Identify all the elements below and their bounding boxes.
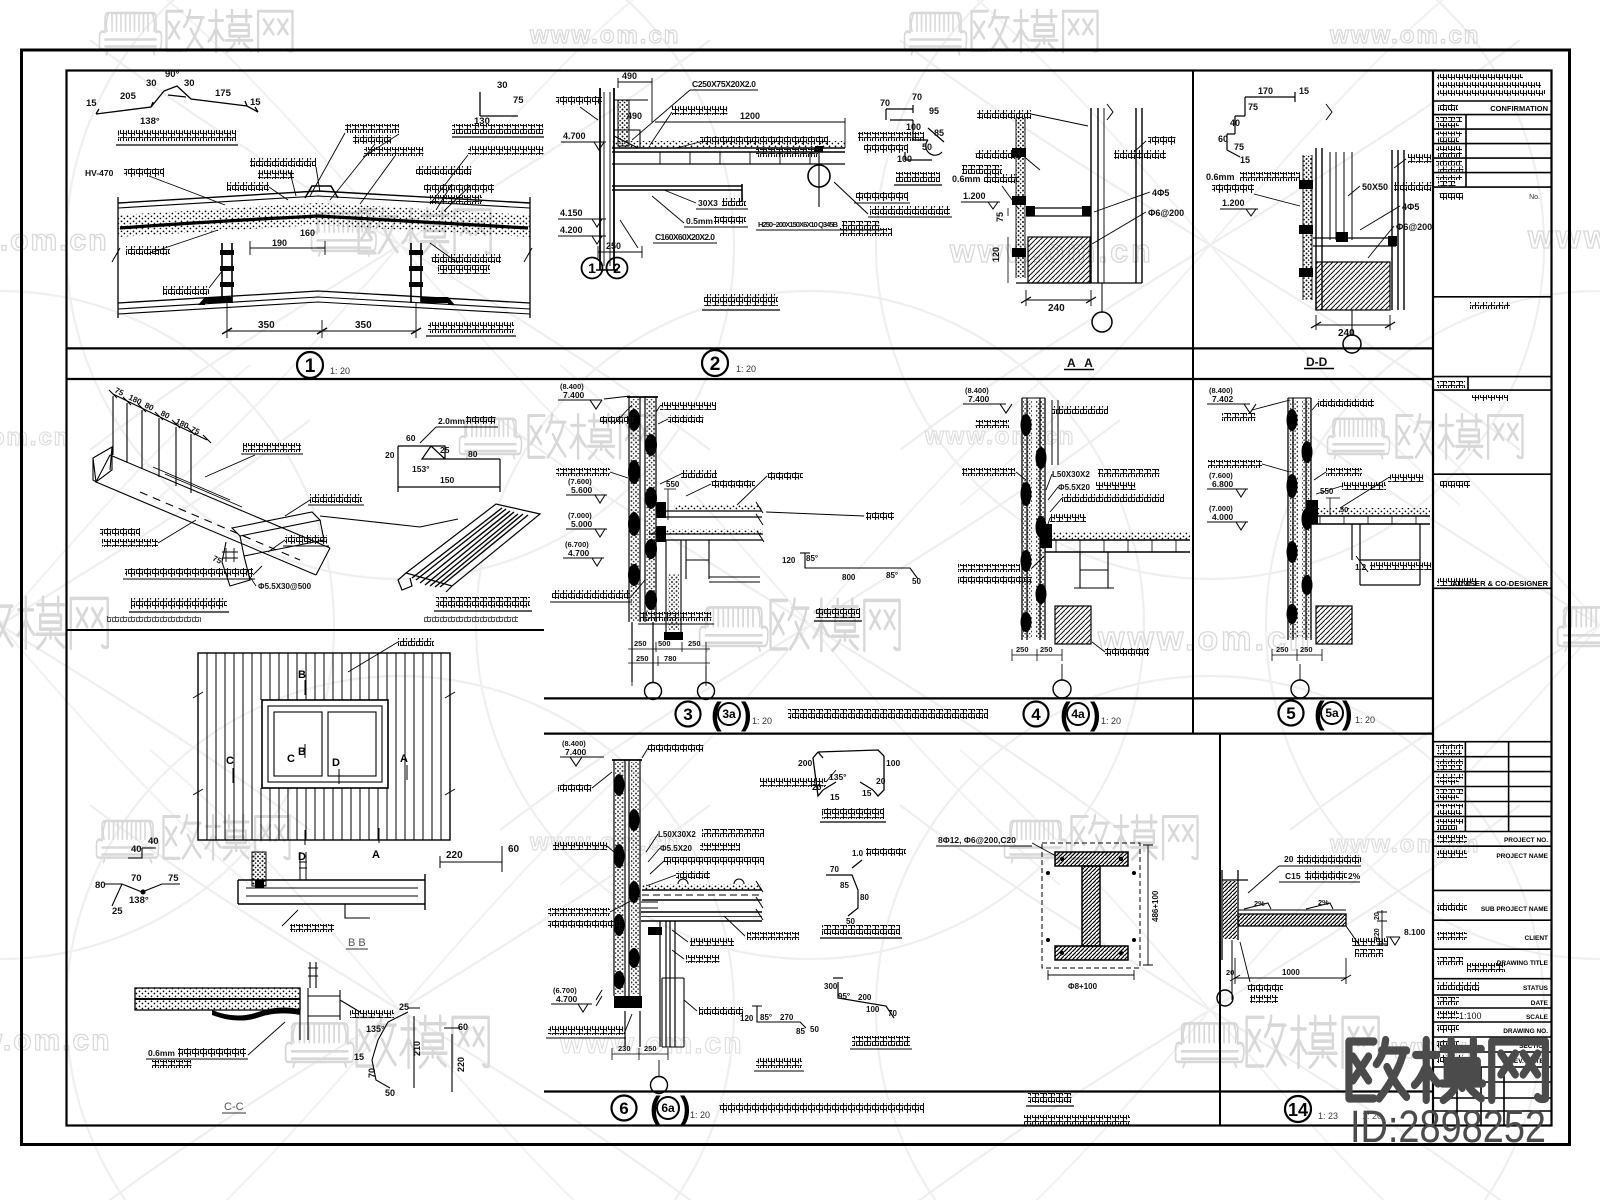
svg-text:80: 80	[860, 893, 869, 902]
svg-text:550: 550	[666, 480, 680, 489]
svg-text:B B: B B	[348, 937, 366, 949]
svg-text:4a: 4a	[1071, 707, 1085, 721]
svg-text:70: 70	[830, 865, 839, 874]
svg-text:500: 500	[658, 639, 671, 648]
svg-text:30: 30	[146, 78, 157, 89]
svg-text:30: 30	[497, 80, 508, 91]
svg-text:4.700: 4.700	[563, 131, 586, 141]
svg-text:Φ6@200: Φ6@200	[1148, 208, 1184, 218]
svg-text:1: 1	[588, 260, 596, 276]
svg-text:75: 75	[513, 95, 524, 106]
svg-text:180: 180	[127, 393, 143, 407]
svg-text:150: 150	[440, 475, 454, 485]
svg-text:138°: 138°	[140, 116, 160, 127]
svg-text:4.700: 4.700	[568, 548, 590, 558]
svg-text:www.om.cn: www.om.cn	[1329, 22, 1480, 49]
svg-text:(: (	[1314, 695, 1325, 731]
svg-text:20: 20	[1226, 968, 1234, 977]
svg-text:1200: 1200	[740, 111, 760, 121]
svg-text:25: 25	[440, 445, 450, 455]
svg-text:85°: 85°	[886, 571, 898, 580]
svg-text:350: 350	[258, 320, 275, 331]
svg-text:C160X60X20X2.0: C160X60X20X2.0	[655, 232, 715, 242]
svg-text:250: 250	[1016, 645, 1029, 654]
svg-text:75: 75	[1234, 142, 1244, 152]
svg-text:1.0: 1.0	[852, 849, 864, 858]
svg-text:www.om.cn: www.om.cn	[0, 224, 109, 257]
svg-text:300: 300	[824, 982, 838, 991]
svg-text:4: 4	[1031, 705, 1041, 724]
svg-text:15: 15	[86, 98, 97, 109]
svg-text:CLIENT: CLIENT	[1525, 935, 1549, 942]
svg-text:15: 15	[862, 788, 872, 798]
svg-text:95: 95	[929, 106, 939, 116]
svg-text:Φ5.5X20: Φ5.5X20	[660, 844, 692, 853]
svg-text:STATUS: STATUS	[1523, 985, 1549, 992]
svg-text:80: 80	[95, 880, 106, 891]
svg-text:0.5mm: 0.5mm	[686, 216, 713, 226]
svg-text:70: 70	[912, 92, 922, 102]
svg-text:1:100: 1:100	[1459, 1011, 1482, 1021]
svg-text:7.400: 7.400	[563, 390, 585, 400]
svg-text:): )	[1090, 696, 1101, 732]
svg-text:PROJECT NAME: PROJECT NAME	[1496, 853, 1548, 860]
svg-text:250: 250	[1276, 645, 1289, 654]
svg-text:DRAWING TITLE: DRAWING TITLE	[1497, 960, 1549, 967]
svg-text:220: 220	[456, 1057, 466, 1072]
svg-text:80: 80	[159, 409, 171, 421]
svg-text:220: 220	[446, 850, 463, 861]
svg-text:C250X75X20X2.0: C250X75X20X2.0	[692, 79, 756, 89]
svg-text:0.6mm: 0.6mm	[148, 1048, 175, 1058]
svg-text:4Φ5: 4Φ5	[1152, 188, 1169, 198]
svg-text:C-C: C-C	[224, 1101, 244, 1113]
svg-text:800: 800	[842, 573, 856, 582]
svg-text:20: 20	[1374, 912, 1381, 920]
svg-text:486+100: 486+100	[1151, 890, 1160, 922]
svg-text:15: 15	[354, 1052, 364, 1062]
svg-text:A A: A A	[1067, 356, 1096, 370]
svg-text:50: 50	[810, 1025, 819, 1034]
svg-text:153°: 153°	[412, 464, 430, 474]
svg-text:100: 100	[886, 758, 900, 768]
svg-text:240: 240	[1048, 303, 1065, 314]
svg-text:D: D	[332, 757, 340, 769]
svg-text:50: 50	[846, 917, 855, 926]
svg-text:No.: No.	[1529, 194, 1540, 201]
svg-text:H250~200X150X6X10 Q345B: H250~200X150X6X10 Q345B	[758, 220, 839, 229]
svg-text:100: 100	[906, 122, 921, 132]
svg-text:30: 30	[184, 78, 195, 89]
svg-text:80: 80	[468, 449, 478, 459]
svg-text:120: 120	[740, 1014, 754, 1023]
svg-text:270: 270	[780, 1013, 794, 1022]
svg-text:100: 100	[897, 154, 912, 164]
svg-text:Φ5.5X20: Φ5.5X20	[1058, 483, 1090, 492]
svg-text:Φ5.5X30@500: Φ5.5X30@500	[258, 582, 312, 591]
svg-text:D: D	[298, 851, 306, 863]
svg-text:CONFIRMATION: CONFIRMATION	[1490, 104, 1548, 113]
svg-text:2%: 2%	[1348, 871, 1361, 881]
svg-text:L50X30X2: L50X30X2	[658, 830, 696, 839]
svg-text:ID:2898252: ID:2898252	[1350, 1101, 1546, 1152]
svg-text:C15: C15	[1285, 871, 1301, 881]
svg-text:14: 14	[1288, 1100, 1308, 1120]
svg-text:HV-470: HV-470	[85, 168, 114, 178]
svg-text:1: 20: 1: 20	[1101, 716, 1121, 726]
svg-text:25: 25	[399, 1002, 409, 1012]
svg-text:50: 50	[922, 142, 932, 152]
svg-text:200: 200	[798, 758, 812, 768]
svg-text:85: 85	[796, 1027, 805, 1036]
svg-text:250: 250	[1300, 645, 1313, 654]
svg-text:PROJECT NO.: PROJECT NO.	[1504, 837, 1548, 844]
svg-text:5.600: 5.600	[571, 485, 593, 495]
svg-text:40: 40	[148, 836, 159, 847]
svg-text:350: 350	[355, 320, 372, 331]
svg-text:250: 250	[644, 1044, 657, 1053]
svg-text:220: 220	[1374, 928, 1381, 940]
svg-text:6: 6	[619, 1099, 628, 1118]
svg-text:550: 550	[1320, 487, 1334, 496]
svg-text:170: 170	[1258, 86, 1273, 96]
svg-text:2.0mm: 2.0mm	[438, 416, 465, 426]
svg-text:0.6mm: 0.6mm	[1206, 172, 1235, 182]
svg-text:20: 20	[385, 450, 395, 460]
svg-text:4Φ5: 4Φ5	[1402, 202, 1419, 212]
svg-text:200: 200	[858, 993, 872, 1002]
svg-text:15: 15	[250, 97, 261, 108]
svg-text:7.400: 7.400	[565, 747, 587, 757]
svg-text:250: 250	[688, 639, 701, 648]
svg-text:1: 20: 1: 20	[736, 364, 756, 374]
svg-text:95°: 95°	[838, 992, 850, 1001]
svg-text:1: 1	[305, 356, 316, 377]
svg-text:250: 250	[606, 241, 621, 251]
svg-text:230: 230	[618, 1044, 631, 1053]
svg-text:40: 40	[1230, 118, 1240, 128]
svg-text:Φ8+100: Φ8+100	[1068, 982, 1098, 991]
svg-text:3a: 3a	[722, 707, 736, 721]
svg-text:4.700: 4.700	[556, 994, 578, 1004]
svg-text:DRAWING NO.: DRAWING NO.	[1503, 1028, 1548, 1035]
svg-text:20: 20	[1284, 854, 1294, 864]
svg-text:SUB PROJECT NAME: SUB PROJECT NAME	[1481, 906, 1549, 913]
svg-text:138°: 138°	[129, 895, 149, 906]
svg-text:1: 20: 1: 20	[330, 366, 350, 376]
svg-text:A: A	[400, 753, 408, 765]
svg-text:40: 40	[131, 844, 142, 855]
svg-text:60: 60	[406, 433, 416, 443]
svg-text:7.400: 7.400	[968, 394, 990, 404]
svg-text:120: 120	[782, 556, 796, 565]
svg-text:15: 15	[830, 792, 840, 802]
svg-text:100: 100	[866, 1005, 880, 1014]
svg-text:25: 25	[112, 906, 123, 917]
svg-text:15: 15	[1299, 86, 1309, 96]
svg-text:780: 780	[664, 654, 677, 663]
svg-text:DATE: DATE	[1531, 1000, 1549, 1007]
svg-text:2: 2	[710, 354, 721, 375]
svg-text:15: 15	[1240, 155, 1250, 165]
svg-text:4.150: 4.150	[560, 208, 583, 218]
svg-text:): )	[1342, 695, 1353, 731]
svg-text:5: 5	[1286, 704, 1295, 723]
svg-text:6.800: 6.800	[1212, 479, 1234, 489]
svg-text:250: 250	[1040, 645, 1053, 654]
svg-text:1.200: 1.200	[1222, 198, 1245, 208]
svg-text:4.200: 4.200	[560, 225, 583, 235]
svg-text:70: 70	[880, 98, 890, 108]
svg-text:2%: 2%	[1254, 899, 1265, 908]
svg-text:85: 85	[840, 881, 849, 890]
svg-text:50X50: 50X50	[1362, 182, 1388, 192]
svg-text:www.om.cn: www.om.cn	[0, 1024, 112, 1057]
svg-text:6a: 6a	[661, 1101, 675, 1115]
svg-text:5.000: 5.000	[571, 519, 593, 529]
svg-text:160: 160	[300, 228, 315, 238]
svg-text:250: 250	[634, 639, 647, 648]
svg-text:1: 23: 1: 23	[1318, 1111, 1338, 1121]
svg-text:1: 20: 1: 20	[690, 1110, 710, 1120]
svg-text:90°: 90°	[165, 69, 180, 80]
svg-text:30X3: 30X3	[698, 198, 718, 208]
svg-text:20: 20	[876, 776, 886, 786]
svg-text:175: 175	[215, 88, 232, 99]
svg-text:): )	[741, 696, 752, 732]
svg-text:250: 250	[636, 654, 649, 663]
svg-text:70: 70	[131, 873, 142, 884]
svg-text:85°: 85°	[806, 554, 818, 563]
svg-text:Φ6@200: Φ6@200	[1396, 222, 1432, 232]
svg-text:8.100: 8.100	[1404, 927, 1426, 937]
svg-text:60: 60	[508, 844, 520, 855]
svg-text:4.000: 4.000	[1212, 512, 1234, 522]
svg-text:1: 20: 1: 20	[752, 716, 772, 726]
svg-text:60: 60	[1218, 134, 1228, 144]
svg-text:2: 2	[613, 260, 621, 276]
svg-text:490: 490	[622, 71, 637, 81]
svg-text:C: C	[287, 753, 295, 765]
svg-text:75: 75	[1248, 102, 1258, 112]
svg-text:1000: 1000	[1282, 968, 1300, 977]
svg-text:1: 20: 1: 20	[1355, 715, 1375, 725]
svg-text:120: 120	[991, 247, 1001, 262]
svg-text:70: 70	[888, 1009, 897, 1018]
svg-text:(: (	[1060, 696, 1071, 732]
svg-text:A: A	[372, 849, 380, 861]
svg-text:5a: 5a	[1325, 706, 1339, 720]
svg-text:7.402: 7.402	[1212, 394, 1234, 404]
svg-text:2%: 2%	[1318, 898, 1329, 907]
svg-text:85°: 85°	[760, 1013, 772, 1022]
svg-text:B: B	[298, 669, 306, 681]
svg-text:3: 3	[683, 705, 692, 724]
svg-text:www.om.cn: www.om.cn	[529, 22, 680, 49]
svg-text:8Φ12, Φ6@200,C20: 8Φ12, Φ6@200,C20	[938, 835, 1016, 845]
svg-text:ADVISER & CO-DESIGNER: ADVISER & CO-DESIGNER	[1452, 579, 1548, 588]
svg-text:(: (	[711, 696, 722, 732]
svg-text:135°: 135°	[829, 772, 847, 782]
svg-text:SCALE: SCALE	[1526, 1014, 1549, 1021]
svg-text:60: 60	[458, 1022, 468, 1032]
svg-text:1.200: 1.200	[963, 191, 986, 201]
svg-text:C: C	[226, 755, 234, 767]
svg-text:75: 75	[168, 873, 179, 884]
svg-text:L50X30X2: L50X30X2	[1052, 470, 1090, 479]
svg-text:490: 490	[627, 111, 642, 121]
svg-text:0.6mm: 0.6mm	[952, 174, 981, 184]
svg-text:75: 75	[211, 554, 223, 566]
svg-text:205: 205	[120, 91, 137, 102]
svg-text:D-D: D-D	[1306, 355, 1328, 369]
svg-text:50: 50	[912, 577, 921, 586]
svg-text:50: 50	[385, 1088, 395, 1098]
svg-text:85: 85	[934, 128, 944, 138]
svg-text:www.om.cn: www.om.cn	[0, 424, 70, 451]
svg-text:(: (	[650, 1090, 661, 1126]
svg-text:www.om: www.om	[1527, 219, 1600, 255]
svg-text:): )	[680, 1090, 691, 1126]
svg-text:190: 190	[272, 238, 287, 248]
svg-text:75: 75	[995, 212, 1005, 222]
